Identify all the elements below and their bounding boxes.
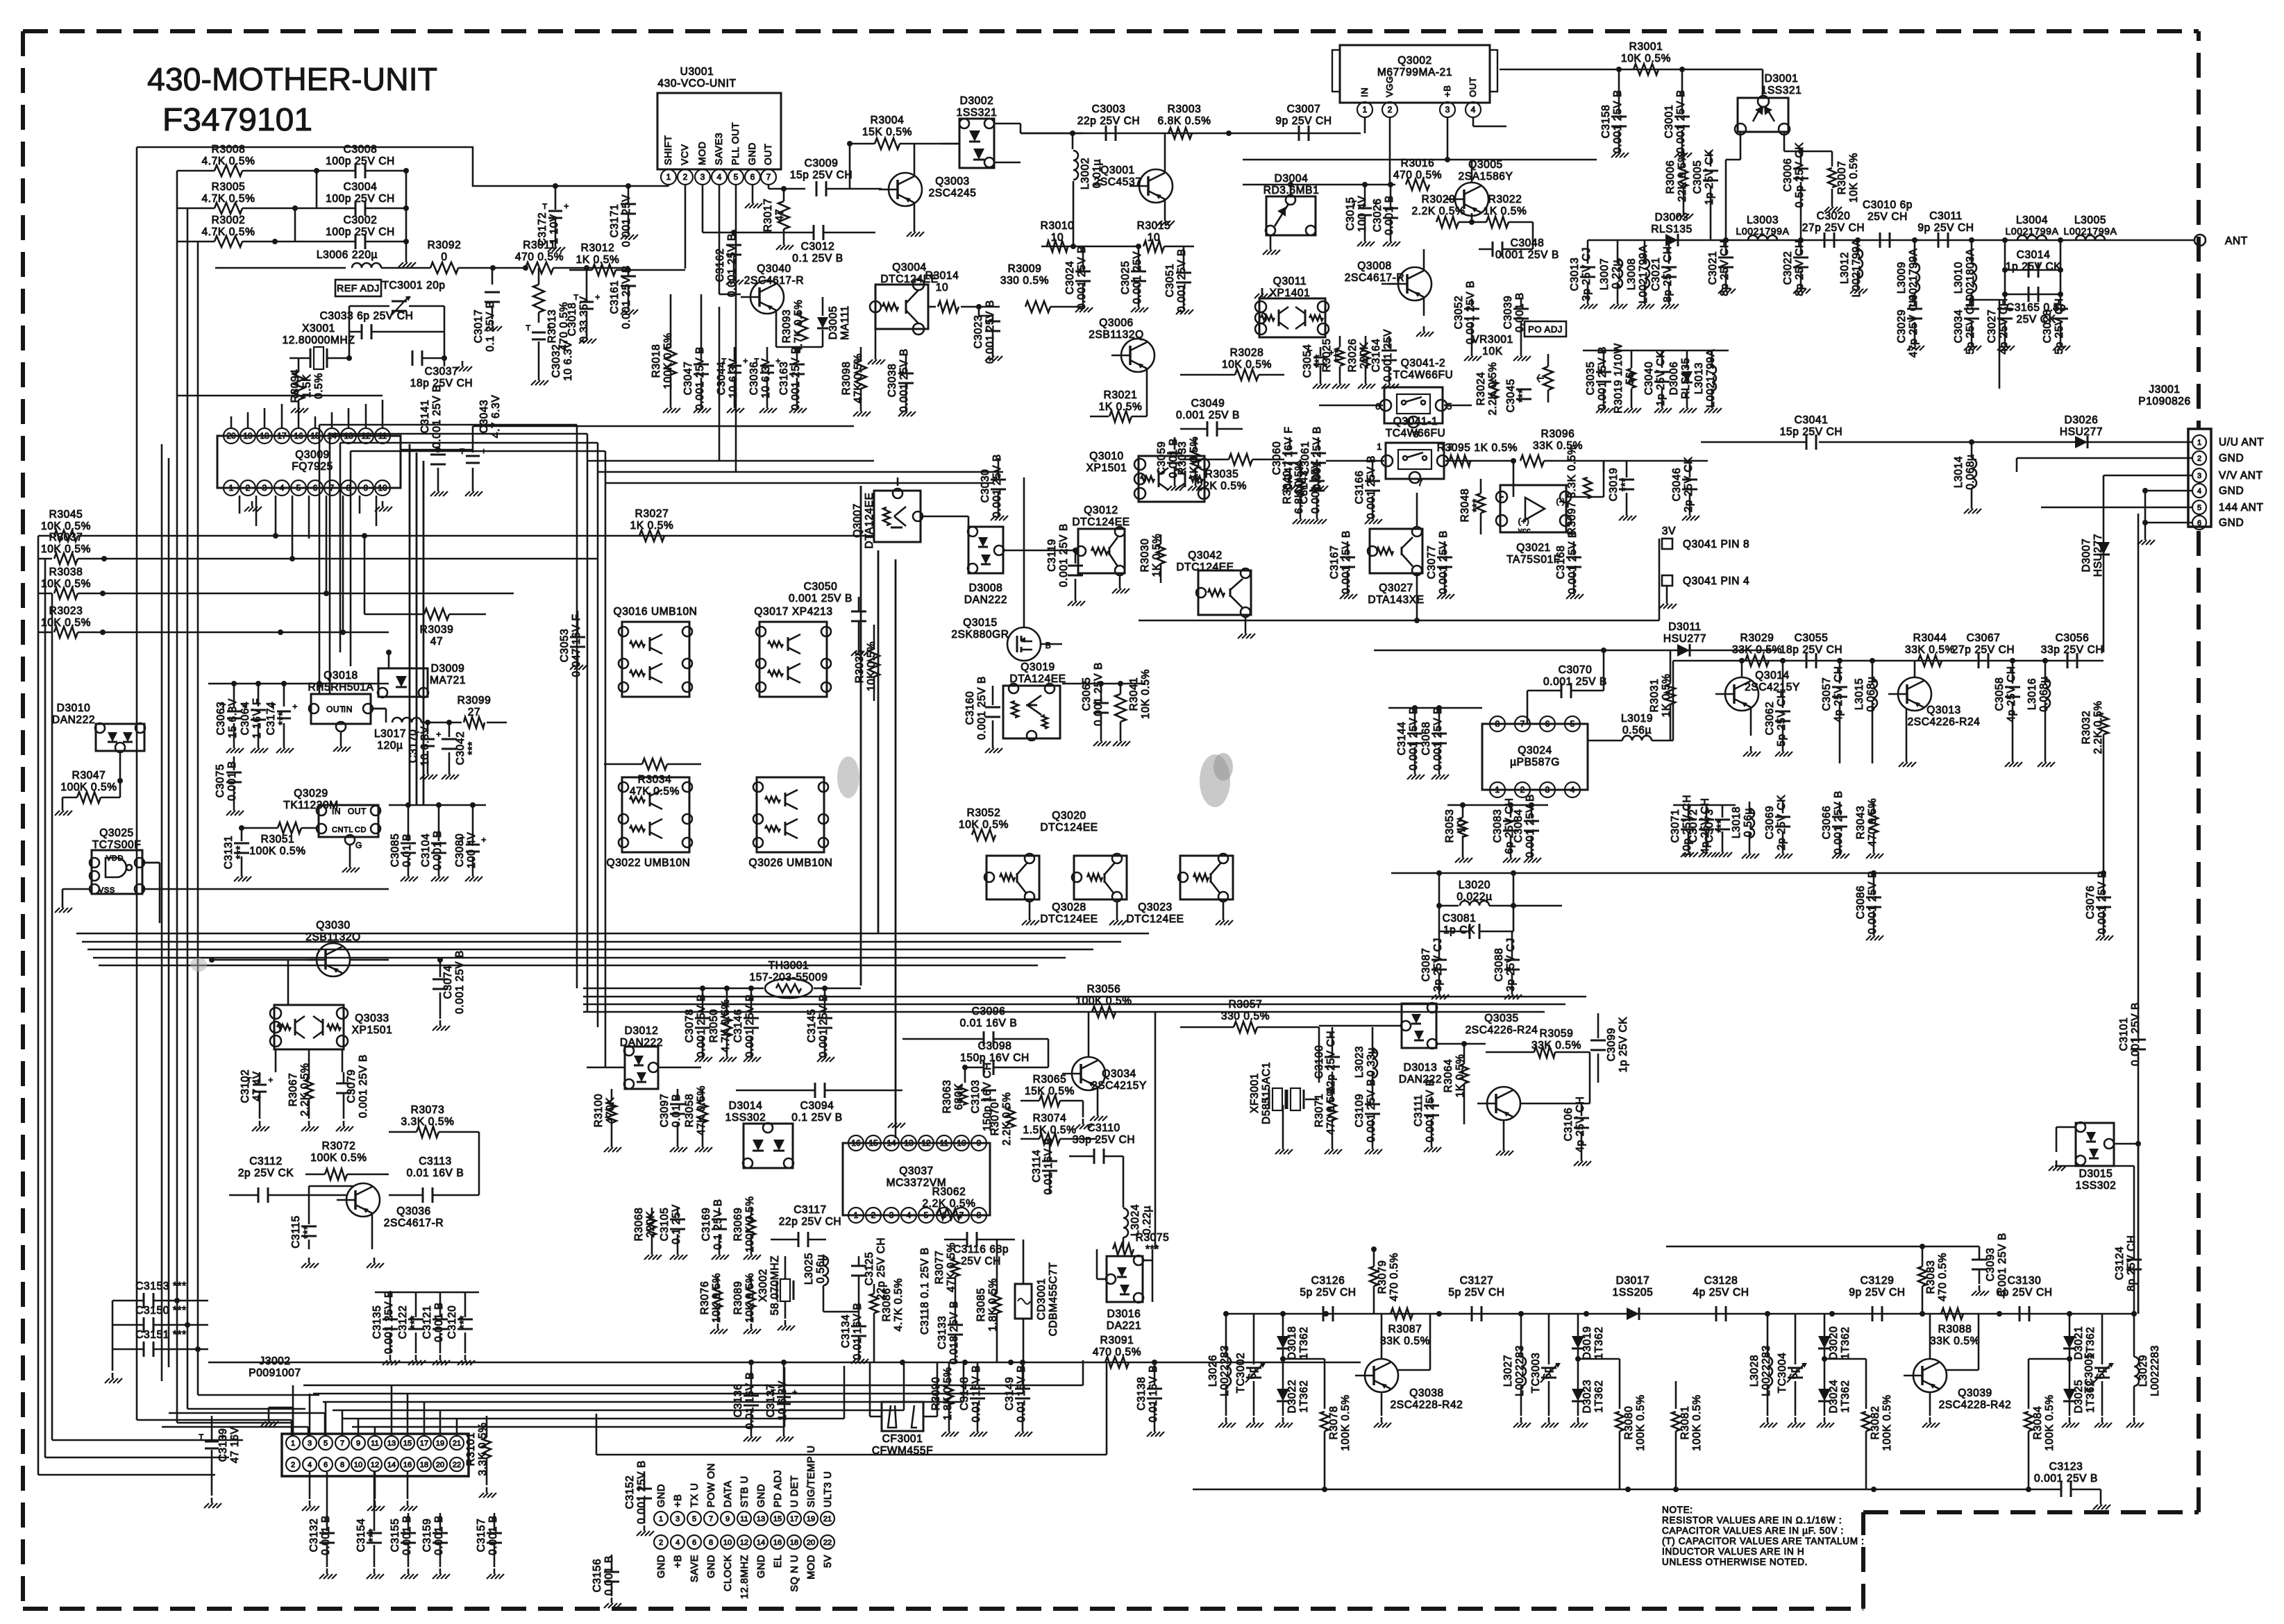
svg-text:+: + [564, 201, 569, 211]
svg-text:C3113: C3113 [419, 1156, 452, 1167]
svg-text:100K 0.5%: 100K 0.5% [744, 1196, 756, 1252]
svg-text:U DET: U DET [789, 1475, 800, 1508]
svg-text:IN: IN [332, 806, 341, 816]
svg-text:C3174: C3174 [265, 702, 277, 736]
svg-text:R3041: R3041 [1128, 677, 1140, 711]
svg-text:7: 7 [709, 1515, 713, 1523]
svg-text:XF3001: XF3001 [1249, 1073, 1261, 1113]
svg-text:J3001: J3001 [2149, 384, 2180, 396]
svg-text:D3013: D3013 [1404, 1062, 1438, 1074]
svg-text:R3065: R3065 [1033, 1074, 1067, 1085]
svg-text:0.001 25V B: 0.001 25V B [2130, 1002, 2142, 1066]
svg-text:C3057: C3057 [1821, 677, 1833, 711]
svg-text:3p 25V CJ: 3p 25V CJ [1432, 938, 1444, 992]
svg-text:6: 6 [324, 1461, 328, 1469]
svg-text:C3109: C3109 [1354, 1094, 1366, 1128]
svg-text:0.1 25V B: 0.1 25V B [712, 1199, 724, 1249]
svg-text:R3022: R3022 [1488, 194, 1522, 205]
svg-text:10: 10 [957, 1138, 966, 1148]
svg-text:22: 22 [453, 1461, 461, 1469]
svg-text:10 6.3V: 10 6.3V [562, 341, 574, 381]
svg-text:18: 18 [260, 431, 269, 441]
svg-text:21: 21 [453, 1439, 461, 1448]
svg-text:C3044: C3044 [716, 362, 728, 396]
svg-text:C3165 0.5p: C3165 0.5p [2006, 302, 2066, 314]
svg-text:6p: 6p [1247, 1367, 1259, 1379]
svg-text:Q3021: Q3021 [1516, 542, 1551, 554]
svg-text:DA221: DA221 [1107, 1320, 1141, 1332]
svg-text:5: 5 [324, 1439, 328, 1448]
svg-text:2SB1132Q: 2SB1132Q [305, 931, 361, 943]
svg-text:4: 4 [280, 483, 285, 493]
svg-text:D3019: D3019 [1581, 1326, 1593, 1360]
svg-text:C3049: C3049 [1191, 398, 1225, 409]
svg-text:C3150 ***: C3150 *** [135, 1305, 186, 1317]
svg-text:C3069: C3069 [1764, 806, 1776, 840]
svg-text:4: 4 [2197, 487, 2201, 496]
svg-text:R3030: R3030 [1139, 539, 1151, 573]
svg-text:C3153 ***: C3153 *** [135, 1280, 186, 1292]
svg-text:C3103: C3103 [970, 1080, 982, 1114]
svg-text:2SK880GR: 2SK880GR [951, 629, 1009, 641]
svg-text:D3012: D3012 [625, 1025, 659, 1037]
svg-text:C3105: C3105 [659, 1208, 671, 1242]
svg-text:1K 0.5%: 1K 0.5% [1189, 437, 1200, 480]
svg-text:C3007: C3007 [1287, 103, 1321, 115]
svg-text:2.2K 0.5%: 2.2K 0.5% [2092, 701, 2104, 754]
svg-text:6p: 6p [2095, 1367, 2107, 1379]
svg-text:1: 1 [1377, 441, 1382, 452]
svg-text:R3053: R3053 [1444, 809, 1456, 843]
svg-text:16: 16 [294, 431, 303, 441]
svg-text:L0022283: L0022283 [2149, 1345, 2161, 1396]
svg-text:100p 25V CH: 100p 25V CH [326, 226, 395, 238]
svg-text:8: 8 [709, 1539, 713, 1547]
svg-text:330 0.5%: 330 0.5% [1000, 275, 1049, 287]
svg-text:+: + [436, 729, 442, 739]
svg-text:0.01 16V B: 0.01 16V B [1043, 1137, 1055, 1195]
svg-text:0.01 16V B: 0.01 16V B [1148, 1365, 1159, 1423]
svg-text:R3064: R3064 [1443, 1059, 1454, 1093]
svg-text:R3100: R3100 [593, 1094, 605, 1128]
svg-text:R3026: R3026 [1347, 339, 1359, 373]
svg-text:R3057: R3057 [1229, 999, 1263, 1010]
svg-text:L3029: L3029 [2138, 1355, 2149, 1387]
svg-text:0.001 25V B: 0.001 25V B [383, 1290, 395, 1354]
svg-text:R3093: R3093 [781, 310, 793, 344]
svg-text:4.7K 0.5%: 4.7K 0.5% [720, 999, 732, 1053]
svg-text:C3132: C3132 [308, 1519, 320, 1553]
svg-text:0.001 25V B: 0.001 25V B [1366, 455, 1377, 519]
svg-text:0.068µ: 0.068µ [2038, 676, 2050, 711]
svg-text:17: 17 [790, 1515, 798, 1523]
svg-text:0.001 25V B: 0.001 25V B [636, 1460, 648, 1524]
svg-text:R3044: R3044 [1913, 632, 1947, 644]
svg-text:R3010: R3010 [1041, 220, 1075, 232]
svg-text:4: 4 [675, 1539, 680, 1547]
svg-text:R3069: R3069 [732, 1208, 744, 1242]
svg-text:IN: IN [1359, 87, 1370, 97]
svg-text:B: B [1046, 641, 1052, 650]
svg-text:D3009: D3009 [431, 663, 465, 675]
svg-text:1p CK: 1p CK [1443, 924, 1475, 936]
svg-text:2SC4215Y: 2SC4215Y [1745, 682, 1800, 693]
svg-text:10: 10 [378, 483, 387, 493]
svg-text:8: 8 [977, 1210, 982, 1220]
svg-text:D3006: D3006 [1668, 362, 1680, 396]
svg-text:R3063: R3063 [941, 1080, 953, 1114]
svg-text:C3138: C3138 [1136, 1377, 1148, 1411]
svg-text:R3028: R3028 [1230, 347, 1264, 359]
svg-text:GND: GND [706, 1555, 717, 1578]
svg-text:XP1501: XP1501 [352, 1024, 393, 1036]
svg-text:0.01 16V B: 0.01 16V B [852, 1303, 864, 1360]
svg-text:L3027: L3027 [1502, 1355, 1514, 1387]
svg-text:21: 21 [823, 1515, 832, 1523]
svg-text:NOTE:: NOTE: [1662, 1505, 1693, 1515]
svg-text:4.7K 0.5%: 4.7K 0.5% [793, 300, 805, 353]
svg-text:100K 0.5%: 100K 0.5% [1340, 1394, 1352, 1450]
svg-text:REF ADJ: REF ADJ [337, 282, 380, 294]
svg-text:2SA1586Y: 2SA1586Y [1459, 171, 1513, 183]
svg-text:0.001 25V B: 0.001 25V B [1366, 1079, 1377, 1142]
svg-text:R3045: R3045 [49, 509, 83, 521]
svg-text:0.001 25V: 0.001 25V [1132, 251, 1143, 304]
svg-text:2SC4617-R: 2SC4617-R [1345, 272, 1404, 284]
svg-text:STB U: STB U [739, 1475, 750, 1507]
svg-text:R3031: R3031 [1649, 679, 1661, 713]
svg-text:IN: IN [344, 704, 353, 714]
svg-text:4: 4 [717, 172, 722, 182]
svg-text:2.2K 0.5%: 2.2K 0.5% [1001, 1092, 1013, 1146]
svg-text:C3050: C3050 [804, 581, 838, 593]
svg-text:1K 0.5%: 1K 0.5% [576, 254, 620, 266]
svg-text:0.001 25V B: 0.001 25V B [1495, 249, 1559, 261]
svg-text:3p 25V CJ: 3p 25V CJ [1581, 247, 1593, 301]
svg-text:220K: 220K [645, 1211, 657, 1238]
svg-text:***: *** [1471, 498, 1483, 512]
svg-text:C3097: C3097 [659, 1094, 671, 1128]
svg-text:3: 3 [1545, 785, 1550, 795]
svg-text:C3030: C3030 [980, 469, 991, 503]
svg-text:D3020: D3020 [1828, 1326, 1840, 1360]
svg-text:19: 19 [807, 1515, 815, 1523]
svg-text:R3095 1K 0.5%: R3095 1K 0.5% [1437, 442, 1518, 454]
svg-text:R3021: R3021 [1104, 389, 1138, 401]
svg-text:1: 1 [854, 1210, 859, 1220]
svg-text:C3043: C3043 [478, 400, 490, 434]
svg-text:0.001 25V B: 0.001 25V B [2097, 870, 2108, 934]
svg-text:47 16V: 47 16V [229, 1427, 241, 1464]
svg-text:Q3041 PIN 4: Q3041 PIN 4 [1683, 575, 1749, 587]
svg-text:C3141: C3141 [419, 400, 431, 434]
svg-text:Q3005: Q3005 [1468, 159, 1503, 171]
svg-text:R3007: R3007 [1836, 161, 1848, 195]
svg-text:µPB587G: µPB587G [1510, 756, 1560, 768]
svg-text:20: 20 [436, 1461, 444, 1469]
svg-text:1: 1 [291, 1439, 295, 1448]
svg-text:C3067: C3067 [1967, 632, 2001, 644]
svg-text:10K 0.5%: 10K 0.5% [1848, 153, 1860, 203]
svg-text:0.001 25V B: 0.001 25V B [1597, 346, 1609, 410]
svg-text:SAVE: SAVE [689, 1555, 700, 1582]
svg-text:2.2K 0.5%: 2.2K 0.5% [1487, 362, 1499, 416]
svg-text:L3019: L3019 [1621, 713, 1653, 725]
svg-text:R3083: R3083 [1925, 1260, 1937, 1294]
svg-text:R3087: R3087 [1388, 1323, 1422, 1335]
svg-text:C3056: C3056 [2056, 632, 2090, 644]
svg-text:***: *** [467, 741, 478, 755]
svg-text:D3011: D3011 [1668, 621, 1702, 633]
svg-text:680K: 680K [953, 1083, 965, 1110]
svg-text:0.001 25V B: 0.001 25V B [1833, 790, 1845, 854]
svg-text:D3001: D3001 [1765, 73, 1799, 85]
svg-text:R3074: R3074 [1033, 1113, 1067, 1124]
svg-text:2SC4226-R24: 2SC4226-R24 [1466, 1024, 1538, 1036]
svg-text:15K 0.5%: 15K 0.5% [1025, 1085, 1075, 1097]
svg-text:27p 25V CH: 27p 25V CH [1952, 644, 2015, 656]
svg-text:C3001: C3001 [1663, 105, 1675, 139]
svg-text:L3028: L3028 [1749, 1355, 1761, 1387]
svg-text:C3164: C3164 [1370, 339, 1382, 373]
svg-text:0.001 25V B: 0.001 25V B [2034, 1473, 2098, 1485]
svg-text:470 0.5%: 470 0.5% [1867, 798, 1879, 847]
svg-text:R3094: R3094 [289, 369, 301, 403]
svg-text:Q3027: Q3027 [1379, 582, 1413, 594]
svg-text:11: 11 [371, 1439, 378, 1448]
svg-text:C3027: C3027 [1986, 310, 1998, 344]
svg-text:TC3002: TC3002 [1235, 1353, 1247, 1394]
svg-text:R3043: R3043 [1855, 806, 1867, 840]
svg-text:0.01 B: 0.01 B [401, 834, 413, 867]
svg-text:R3047: R3047 [72, 770, 106, 781]
svg-text:C3065: C3065 [1081, 677, 1093, 711]
svg-text:16: 16 [851, 1138, 861, 1148]
svg-text:0.022µ: 0.022µ [1456, 891, 1492, 903]
svg-text:C3098: C3098 [978, 1040, 1012, 1052]
svg-text:5: 5 [1447, 401, 1452, 412]
svg-text:R3032: R3032 [2081, 711, 2092, 745]
svg-text:OUT: OUT [326, 704, 345, 714]
svg-text:4: 4 [907, 1210, 912, 1220]
svg-text:14: 14 [327, 431, 337, 441]
svg-text:100 4V: 100 4V [466, 832, 478, 869]
svg-text:15: 15 [403, 1439, 412, 1448]
svg-text:C3039: C3039 [1502, 296, 1514, 330]
svg-text:0.33µ: 0.33µ [1366, 1047, 1377, 1076]
svg-text:(T) CAPACITOR VALUES ARE TANTA: (T) CAPACITOR VALUES ARE TANTALUM : [1662, 1536, 1865, 1546]
svg-text:D3002: D3002 [960, 95, 994, 107]
svg-text:C3053: C3053 [559, 629, 571, 663]
svg-text:INDUCTOR VALUES ARE IN H: INDUCTOR VALUES ARE IN H [1662, 1546, 1804, 1557]
svg-text:5: 5 [692, 1515, 696, 1523]
svg-text:Q3016 UMB10N: Q3016 UMB10N [614, 606, 698, 618]
svg-text:C3167: C3167 [1329, 545, 1341, 580]
svg-text:T: T [526, 324, 530, 332]
svg-text:C3121: C3121 [421, 1305, 433, 1339]
svg-text:C3127: C3127 [1460, 1275, 1494, 1287]
svg-text:C3081: C3081 [1443, 913, 1477, 924]
svg-text:13: 13 [387, 1439, 396, 1448]
svg-text:CD3001: CD3001 [1036, 1278, 1048, 1320]
svg-text:OUT: OUT [762, 144, 773, 165]
svg-text:D3024: D3024 [1828, 1380, 1840, 1414]
svg-text:R3097 3.3K 0.5%: R3097 3.3K 0.5% [1566, 445, 1578, 536]
svg-text:2SC4617-R: 2SC4617-R [744, 275, 804, 287]
svg-text:***: *** [409, 1315, 421, 1329]
svg-text:Q3013: Q3013 [1926, 704, 1961, 716]
svg-text:12.8MHZ: 12.8MHZ [739, 1555, 750, 1599]
svg-text:0.001 25V B: 0.001 25V B [1093, 662, 1105, 726]
svg-text:C3083: C3083 [1492, 809, 1504, 843]
svg-text:C3116 68p: C3116 68p [953, 1244, 1009, 1255]
svg-text:10K 0.5%: 10K 0.5% [1140, 669, 1152, 719]
svg-text:C3117: C3117 [793, 1204, 827, 1216]
svg-text:R3051: R3051 [261, 834, 295, 845]
svg-text:Q3004: Q3004 [892, 262, 927, 273]
svg-text:+: + [292, 702, 298, 711]
svg-text:12.80000MHZ: 12.80000MHZ [283, 335, 355, 346]
svg-text:***: *** [367, 1528, 379, 1542]
svg-text:0.1 25V B: 0.1 25V B [792, 253, 843, 264]
svg-text:0.001 25V B: 0.001 25V B [621, 265, 632, 329]
svg-text:1T362: 1T362 [1593, 1327, 1605, 1360]
svg-text:Q3019: Q3019 [1021, 661, 1055, 673]
svg-text:L0022283: L0022283 [1514, 1345, 1526, 1396]
svg-text:0.001 25V B: 0.001 25V B [1341, 530, 1352, 594]
svg-text:4.7K 0.5%: 4.7K 0.5% [202, 155, 255, 167]
svg-text:L3016: L3016 [2026, 678, 2038, 710]
svg-text:R3068: R3068 [633, 1208, 645, 1242]
svg-text:C3021: C3021 [1707, 251, 1719, 285]
svg-text:47K 0.5%: 47K 0.5% [696, 1085, 707, 1135]
svg-text:L3025: L3025 [803, 1253, 815, 1285]
svg-text:L3017: L3017 [374, 728, 406, 740]
svg-text:Q3025: Q3025 [99, 827, 134, 839]
svg-text:0.001 25V B: 0.001 25V B [1675, 90, 1687, 153]
svg-text:2SC4245: 2SC4245 [929, 187, 977, 199]
svg-text:0.001 25V B: 0.001 25V B [1432, 707, 1444, 770]
svg-text:R3072: R3072 [322, 1140, 356, 1152]
svg-text:GND: GND [2219, 485, 2244, 497]
svg-text:***: *** [1333, 348, 1345, 362]
svg-text:5: 5 [296, 483, 301, 493]
svg-text:X3001: X3001 [302, 323, 335, 335]
svg-text:VCV: VCV [679, 144, 690, 165]
svg-text:0.001 B: 0.001 B [226, 761, 238, 801]
svg-text:+: + [792, 1387, 798, 1397]
svg-text:SHIFT: SHIFT [662, 135, 673, 165]
svg-text:100p 25V CH: 100p 25V CH [326, 193, 395, 205]
svg-text:(+): (+) [1518, 516, 1530, 526]
svg-text:GND: GND [746, 142, 757, 165]
svg-text:4p 25V CH: 4p 25V CH [1575, 1096, 1586, 1152]
svg-text:0.001 25V B: 0.001 25V B [1567, 530, 1579, 594]
svg-text:10 6.3V: 10 6.3V [419, 726, 431, 766]
svg-text:ANT: ANT [2225, 235, 2248, 247]
svg-text:0.001 25V B: 0.001 25V B [991, 454, 1003, 518]
svg-text:D58515AC1: D58515AC1 [1261, 1062, 1273, 1124]
svg-text:Q3041-2: Q3041-2 [1401, 357, 1446, 369]
svg-text:0.001 B: 0.001 B [1384, 195, 1395, 235]
svg-text:R3027: R3027 [635, 508, 669, 520]
svg-text:R3023: R3023 [49, 605, 83, 617]
svg-text:R3002: R3002 [212, 214, 246, 226]
svg-text:2SC4228-R42: 2SC4228-R42 [1391, 1399, 1463, 1411]
svg-text:5: 5 [2197, 504, 2201, 512]
svg-text:C3015: C3015 [1345, 197, 1357, 231]
svg-text:Q3041-1: Q3041-1 [1393, 416, 1438, 428]
svg-text:L3013: L3013 [1693, 362, 1705, 394]
svg-text:R3091: R3091 [1100, 1335, 1134, 1346]
svg-text:25V CH: 25V CH [1867, 211, 1908, 223]
svg-text:10K 0.5%: 10K 0.5% [1621, 53, 1671, 65]
svg-text:6: 6 [2197, 519, 2201, 527]
svg-text:L3005: L3005 [2074, 214, 2106, 226]
svg-text:SAVE3: SAVE3 [713, 133, 724, 165]
svg-text:Q3039: Q3039 [1958, 1387, 1992, 1399]
svg-text:HSU277: HSU277 [2092, 534, 2104, 577]
svg-text:C3156: C3156 [591, 1559, 603, 1593]
svg-text:19: 19 [243, 431, 253, 441]
svg-text:7: 7 [1418, 477, 1423, 488]
svg-text:6: 6 [942, 1210, 947, 1220]
svg-text:R3038: R3038 [49, 566, 83, 578]
svg-text:R3008: R3008 [212, 144, 246, 155]
svg-text:0.001 25V B: 0.001 25V B [1425, 1079, 1436, 1142]
svg-text:C3163: C3163 [778, 362, 790, 396]
svg-text:VDD: VDD [106, 854, 124, 863]
svg-text:15p 25V CH: 15p 25V CH [1780, 426, 1842, 438]
svg-text:R3016: R3016 [1401, 158, 1435, 169]
svg-text:5p 25V CH: 5p 25V CH [1448, 1287, 1504, 1299]
svg-text:2p 25V CK: 2p 25V CK [1776, 795, 1788, 850]
svg-text:DATA: DATA [723, 1480, 734, 1507]
svg-text:2SB1132Q: 2SB1132Q [1089, 329, 1144, 341]
svg-text:R3056: R3056 [1087, 983, 1121, 995]
svg-text:R3086: R3086 [881, 1288, 893, 1322]
svg-text:1p 25V CK: 1p 25V CK [1704, 149, 1715, 205]
svg-text:100K 0.5%: 100K 0.5% [1635, 1394, 1647, 1450]
svg-text:T: T [542, 203, 547, 211]
svg-text:C3112: C3112 [249, 1156, 283, 1167]
svg-text:R3099: R3099 [457, 695, 492, 707]
svg-text:8p 25V CH: 8p 25V CH [2126, 1235, 2138, 1291]
svg-text:470 0.5%: 470 0.5% [1093, 1346, 1141, 1358]
svg-text:F3479101: F3479101 [162, 101, 312, 137]
svg-text:C3172: C3172 [537, 212, 548, 246]
svg-text:6: 6 [750, 172, 755, 182]
svg-text:4.7K 0.5%: 4.7K 0.5% [202, 193, 255, 205]
svg-text:10K 0.5%: 10K 0.5% [41, 578, 91, 590]
svg-text:L3002: L3002 [1080, 158, 1091, 189]
svg-text:18p 25V CH: 18p 25V CH [1780, 644, 1842, 656]
svg-text:C3046: C3046 [1671, 468, 1683, 502]
svg-text:33K 0.5%: 33K 0.5% [1380, 1335, 1430, 1347]
svg-text:0.001 25V B: 0.001 25V B [976, 676, 988, 740]
svg-text:0.001 25V B: 0.001 25V B [1408, 707, 1420, 770]
svg-text:22p 25V CH: 22p 25V CH [1077, 115, 1140, 127]
svg-text:R3088: R3088 [1938, 1323, 1972, 1335]
svg-text:U/U ANT: U/U ANT [2219, 437, 2264, 448]
svg-text:L3015: L3015 [1854, 678, 1865, 710]
svg-text:1SS321: 1SS321 [1761, 85, 1802, 96]
svg-text:D3022: D3022 [1286, 1380, 1298, 1414]
svg-text:DAN222: DAN222 [964, 594, 1007, 606]
svg-text:Q3030: Q3030 [316, 920, 351, 931]
svg-text:4.7K 0.5%: 4.7K 0.5% [893, 1278, 905, 1332]
svg-text:C3086: C3086 [1855, 886, 1867, 920]
